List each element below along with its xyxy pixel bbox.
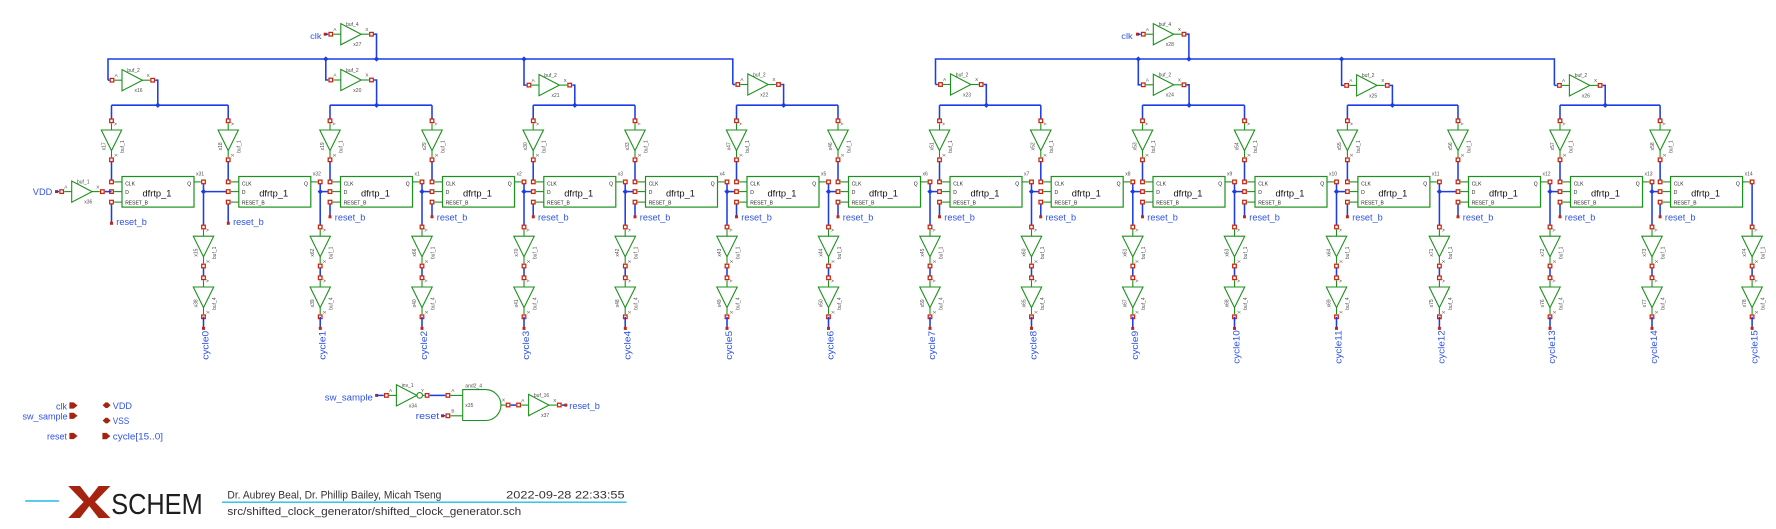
- label reset_b at x8: [1046, 212, 1077, 223]
- wire Q of x7 to D of x8 and down: [1032, 182, 1041, 227]
- svg-text:buf_1: buf_1: [542, 140, 548, 153]
- svg-text:RESET_B: RESET_B: [125, 200, 148, 206]
- junction node q11: [1334, 189, 1339, 194]
- svg-text:buf_1: buf_1: [77, 179, 90, 185]
- wire x24 input drop: [1138, 59, 1140, 85]
- svg-text:CLK: CLK: [1574, 182, 1584, 188]
- label reset_b at x14: [1665, 212, 1696, 223]
- svg-text:CLK: CLK: [1258, 182, 1268, 188]
- buffer buf_1 x55 (clock): [1337, 119, 1362, 162]
- buffer buf_1 x19 (clock): [320, 119, 345, 162]
- junction node q2: [419, 189, 424, 194]
- wire reset_b stub x3: [532, 202, 535, 218]
- junction right net at x28: [1186, 56, 1191, 61]
- svg-text:reset_b: reset_b: [335, 212, 366, 223]
- wire clk buf x18 to CLK of x32: [227, 160, 229, 182]
- svg-text:x74: x74: [1742, 248, 1748, 256]
- wire X x43 to A x49: [726, 266, 728, 278]
- buffer buf_1 x61 (output): [1123, 225, 1148, 268]
- svg-text:buf_1: buf_1: [1448, 246, 1454, 259]
- svg-text:x59: x59: [920, 299, 926, 307]
- wire clk pair net 1: [330, 104, 432, 106]
- label cycle3: [521, 331, 531, 360]
- svg-text:x73: x73: [1642, 248, 1648, 256]
- svg-text:buf_4: buf_4: [346, 22, 359, 28]
- svg-text:X: X: [424, 260, 429, 263]
- svg-text:SCHEM: SCHEM: [111, 489, 203, 521]
- junction left net at x20: [323, 56, 328, 61]
- svg-text:buf_1: buf_1: [1558, 246, 1564, 259]
- wire clk drop to buf x55: [1346, 105, 1348, 121]
- svg-text:x64: x64: [1326, 248, 1332, 256]
- wire cycle0 output: [202, 317, 205, 330]
- wire clk buf x52 to CLK of x8: [1040, 160, 1042, 182]
- svg-text:CLK: CLK: [547, 182, 557, 188]
- label cycle8: [1029, 331, 1039, 360]
- wire clk pair net 3: [737, 104, 839, 106]
- svg-text:Y: Y: [421, 388, 424, 393]
- svg-text:x46: x46: [828, 142, 834, 150]
- svg-text:dfrtp_1: dfrtp_1: [564, 189, 593, 199]
- svg-text:X: X: [1349, 154, 1354, 157]
- svg-text:x10: x10: [1329, 171, 1337, 177]
- svg-text:X: X: [932, 311, 937, 314]
- svg-text:x69: x69: [1326, 299, 1332, 307]
- svg-text:cycle12: cycle12: [1437, 330, 1447, 364]
- svg-text:x52: x52: [1031, 142, 1037, 150]
- wire long clk net left half: [108, 59, 733, 85]
- svg-text:D: D: [1674, 190, 1678, 196]
- svg-text:dfrtp_1: dfrtp_1: [1378, 189, 1407, 199]
- svg-text:buf_1: buf_1: [1141, 246, 1147, 259]
- wire X x61 to A x67: [1132, 266, 1134, 278]
- svg-text:cycle11: cycle11: [1334, 330, 1344, 364]
- svg-text:X: X: [627, 311, 632, 314]
- wire Q of x1 to D of x2 and down: [422, 182, 432, 227]
- svg-text:cycle3: cycle3: [521, 331, 531, 360]
- title date: [506, 490, 624, 502]
- svg-text:reset_b: reset_b: [569, 401, 600, 412]
- svg-text:buf_1: buf_1: [532, 246, 538, 259]
- svg-text:clk: clk: [56, 401, 67, 411]
- svg-text:X: X: [322, 260, 327, 263]
- junction pair net 5: [1186, 103, 1191, 108]
- output pin cycle[15..0]: [102, 432, 163, 442]
- svg-text:x21: x21: [552, 93, 560, 99]
- svg-text:x43: x43: [717, 248, 723, 256]
- flip-flop dfrtp_1 x31: [110, 171, 206, 207]
- label reset_b at x4: [640, 212, 671, 223]
- svg-text:X: X: [932, 260, 937, 263]
- flip-flop dfrtp_1 x10: [1243, 171, 1339, 207]
- svg-text:RESET_B: RESET_B: [242, 200, 265, 206]
- junction left net at x27: [374, 56, 379, 61]
- svg-text:buf_1: buf_1: [338, 140, 344, 153]
- svg-text:x20: x20: [353, 88, 361, 94]
- junction node q0: [201, 189, 206, 194]
- svg-text:x3: x3: [618, 171, 624, 177]
- wire clk buf x28 output down to net: [1187, 34, 1189, 59]
- svg-text:buf_1: buf_1: [1253, 140, 1259, 153]
- svg-text:Q: Q: [609, 182, 613, 188]
- svg-text:buf_1: buf_1: [329, 246, 335, 259]
- svg-text:buf_1: buf_1: [1151, 140, 1157, 153]
- svg-text:x38: x38: [193, 299, 199, 307]
- svg-text:buf_1: buf_1: [745, 140, 751, 153]
- svg-text:buf_1: buf_1: [846, 140, 852, 153]
- label cycle1: [317, 331, 327, 360]
- svg-text:dfrtp_1: dfrtp_1: [361, 189, 390, 199]
- flip-flop dfrtp_1 x11: [1346, 171, 1442, 207]
- svg-text:buf_4: buf_4: [532, 297, 538, 310]
- label cycle15: [1749, 330, 1759, 364]
- svg-text:X: X: [322, 311, 327, 314]
- wire cycle1 output: [319, 317, 322, 330]
- wire x16 output down: [155, 80, 158, 105]
- wire X x63 to A x68: [1234, 266, 1236, 278]
- svg-text:Q: Q: [304, 182, 308, 188]
- wire clk buf x57 to CLK of x13: [1559, 160, 1561, 182]
- svg-text:CLK: CLK: [125, 182, 135, 188]
- svg-text:x5: x5: [821, 171, 827, 177]
- wire clk buf x58 to CLK of x14: [1659, 160, 1661, 182]
- svg-text:x57: x57: [1550, 142, 1556, 150]
- svg-text:reset_b: reset_b: [843, 212, 874, 223]
- svg-text:x50: x50: [818, 299, 824, 307]
- svg-text:X: X: [1135, 311, 1140, 314]
- svg-text:RESET_B: RESET_B: [649, 200, 672, 206]
- svg-text:src/shifted_clock_generator/sh: src/shifted_clock_generator/shifted_cloc…: [227, 506, 521, 518]
- buffer buf_1 x63 (output): [1224, 225, 1249, 268]
- wire reset_b stub x13: [1559, 202, 1562, 218]
- junction node q8: [1029, 189, 1034, 194]
- svg-text:X: X: [1381, 78, 1384, 83]
- wire clk buf x19 to CLK of x1: [329, 160, 331, 182]
- svg-text:D: D: [953, 190, 957, 196]
- wire reset_b stub x11: [1346, 202, 1349, 218]
- junction node q3: [521, 189, 526, 194]
- label reset: [416, 411, 446, 421]
- wire reset_b stub x2: [431, 202, 434, 218]
- svg-text:VSS: VSS: [113, 416, 130, 426]
- svg-text:reset_b: reset_b: [640, 212, 671, 223]
- junction node q5: [724, 189, 729, 194]
- wire clk drop to buf x54: [1244, 105, 1246, 121]
- svg-text:x32: x32: [313, 171, 321, 177]
- buffer buf_1 x43 (output): [717, 225, 742, 268]
- svg-text:buf_2: buf_2: [1575, 73, 1588, 79]
- svg-text:X: X: [975, 77, 978, 82]
- wire x34 Y to and A: [430, 394, 446, 396]
- junction pair net 2: [572, 103, 577, 108]
- svg-text:buf_1: buf_1: [1040, 246, 1046, 259]
- svg-text:2022-09-28 22:33:55: 2022-09-28 22:33:55: [506, 490, 624, 502]
- svg-text:x28: x28: [1166, 42, 1174, 48]
- svg-text:x34: x34: [409, 403, 417, 409]
- svg-text:x1: x1: [415, 171, 421, 177]
- buffer buf_1 x74 (output): [1742, 225, 1767, 268]
- svg-text:buf_4: buf_4: [1448, 297, 1454, 310]
- svg-text:x18: x18: [218, 142, 224, 150]
- buffer buf_1 x60 (output): [1021, 225, 1046, 268]
- input pin reset: [47, 432, 78, 442]
- svg-text:CLK: CLK: [1674, 182, 1684, 188]
- svg-text:buf_1: buf_1: [1345, 246, 1351, 259]
- svg-text:buf_1: buf_1: [1761, 246, 1767, 259]
- svg-text:x27: x27: [353, 42, 361, 48]
- svg-text:sw_sample: sw_sample: [325, 392, 373, 402]
- label VDD at x36: [33, 187, 59, 197]
- label reset_b at x32: [233, 217, 264, 228]
- svg-text:x67: x67: [1123, 299, 1129, 307]
- wire clk drop to buf x51: [939, 105, 941, 121]
- wire X x44 to A x50: [828, 266, 830, 278]
- svg-text:x25: x25: [1369, 93, 1377, 99]
- svg-text:x12: x12: [1543, 171, 1551, 177]
- svg-text:X: X: [434, 154, 439, 157]
- svg-text:buf_1: buf_1: [634, 246, 640, 259]
- svg-text:X: X: [738, 154, 743, 157]
- svg-text:x36: x36: [84, 200, 92, 206]
- buffer buf_1 x42 (output): [615, 225, 640, 268]
- svg-text:buf_2: buf_2: [1362, 73, 1375, 79]
- wire clk buf x17 to CLK of x31: [111, 160, 113, 182]
- svg-text:reset: reset: [416, 411, 440, 421]
- svg-text:X: X: [147, 73, 150, 78]
- svg-text:reset_b: reset_b: [1249, 212, 1280, 223]
- svg-text:x40: x40: [412, 299, 418, 307]
- svg-text:X: X: [1338, 311, 1343, 314]
- svg-text:buf_1: buf_1: [1466, 140, 1472, 153]
- svg-text:X: X: [1178, 27, 1181, 32]
- wire Q of x31 to D of x32 and down: [204, 182, 229, 227]
- wire x25 output down: [1390, 85, 1393, 105]
- wire x23 output down: [984, 85, 987, 106]
- junction node q6: [826, 189, 831, 194]
- svg-text:dfrtp_1: dfrtp_1: [1276, 189, 1305, 199]
- wire reset_b stub x12: [1457, 202, 1460, 218]
- svg-text:buf_4: buf_4: [938, 297, 944, 310]
- svg-text:X: X: [1562, 154, 1567, 157]
- junction node q7: [927, 189, 932, 194]
- svg-text:buf_1: buf_1: [948, 140, 954, 153]
- svg-text:x66: x66: [412, 248, 418, 256]
- buffer buf_2 x23: [939, 72, 983, 98]
- label cycle11: [1334, 330, 1344, 364]
- svg-text:buf_1: buf_1: [430, 246, 436, 259]
- svg-text:buf_4: buf_4: [1243, 297, 1249, 310]
- svg-text:RESET_B: RESET_B: [852, 200, 875, 206]
- buffer buf_1 x54 (clock): [1234, 119, 1259, 162]
- wire clk drop to buf x19: [329, 105, 331, 121]
- label sw_sample: [325, 392, 384, 402]
- svg-text:buf_4: buf_4: [1660, 297, 1666, 310]
- svg-text:X: X: [637, 154, 642, 157]
- wire clk drop to buf x58: [1659, 105, 1661, 121]
- wire reset_b stub x7: [938, 202, 941, 218]
- svg-text:dfrtp_1: dfrtp_1: [971, 189, 1000, 199]
- svg-text:x2: x2: [517, 171, 523, 177]
- wire clk buf x53 to CLK of x9: [1142, 160, 1144, 182]
- wire Q of x10 to D of x11 and down: [1337, 182, 1348, 227]
- flip-flop dfrtp_1 x7: [938, 171, 1034, 207]
- wire Q of x5 to D of x6 and down: [829, 182, 839, 227]
- buffer buf_4 x38 (output): [193, 276, 218, 319]
- svg-text:cycle2: cycle2: [419, 331, 429, 360]
- wire X x62 to A x39: [319, 266, 321, 278]
- buffer buf_1 x44 (output): [818, 225, 843, 268]
- buffer buf_2 x26: [1558, 73, 1602, 99]
- wire cycle9 output: [1131, 317, 1134, 330]
- buffer buf_1 x58 (clock): [1650, 119, 1675, 162]
- svg-text:x41: x41: [514, 299, 520, 307]
- svg-text:buf_2: buf_2: [753, 72, 766, 78]
- svg-text:reset_b: reset_b: [1665, 212, 1696, 223]
- label reset_b at x9: [1147, 212, 1178, 223]
- wire clk buf x54 to CLK of x10: [1244, 160, 1246, 182]
- wire reset_b stub x31: [110, 202, 113, 225]
- wire cycle15 output: [1751, 317, 1754, 330]
- svg-text:x54: x54: [1234, 142, 1240, 150]
- svg-text:buf_1: buf_1: [1568, 140, 1574, 153]
- flip-flop dfrtp_1 x32: [226, 171, 322, 207]
- buffer buf_2 x22: [736, 72, 780, 98]
- wire reset_b output: [562, 404, 567, 407]
- svg-text:VDD: VDD: [113, 401, 133, 411]
- svg-text:buf_1: buf_1: [643, 140, 649, 153]
- wire reset_b stub x5: [735, 202, 738, 218]
- flip-flop dfrtp_1 x6: [836, 171, 932, 207]
- svg-text:RESET_B: RESET_B: [446, 200, 469, 206]
- svg-text:buf_1: buf_1: [735, 246, 741, 259]
- svg-text:reset_b: reset_b: [233, 217, 264, 228]
- svg-text:Q: Q: [187, 182, 191, 188]
- svg-text:x71: x71: [1429, 248, 1435, 256]
- svg-text:x39: x39: [310, 299, 316, 307]
- wire x36 X to D of x31: [105, 191, 112, 193]
- svg-text:buf_1: buf_1: [1049, 140, 1055, 153]
- wire X x74 to A x78: [1751, 266, 1753, 278]
- svg-text:X: X: [332, 154, 337, 157]
- svg-text:dfrtp_1: dfrtp_1: [143, 189, 172, 199]
- svg-text:CLK: CLK: [242, 182, 252, 188]
- logo cyan dash: [25, 500, 59, 502]
- wire cycle5 output: [726, 317, 729, 330]
- buffer buf_2 x16: [110, 68, 154, 94]
- svg-text:cycle7: cycle7: [927, 331, 937, 360]
- wire x24 output down: [1187, 85, 1190, 105]
- wire Q of x4 to D of x5 and down: [727, 182, 737, 227]
- wire clk drop to buf x47: [736, 105, 738, 121]
- svg-text:reset_b: reset_b: [1352, 212, 1383, 223]
- svg-text:x35: x35: [465, 403, 473, 409]
- svg-text:X: X: [1033, 311, 1038, 314]
- svg-text:X: X: [1033, 260, 1038, 263]
- svg-text:X: X: [1552, 311, 1557, 314]
- svg-text:D: D: [125, 190, 129, 196]
- wire X x42 to A x48: [624, 266, 626, 278]
- svg-text:CLK: CLK: [446, 182, 456, 188]
- wire X x66 to A x40: [421, 266, 423, 278]
- wire x16 input stub: [108, 79, 109, 81]
- junction right net at x24: [1136, 56, 1141, 61]
- svg-text:D: D: [547, 190, 551, 196]
- svg-text:RESET_B: RESET_B: [1574, 200, 1597, 206]
- label reset_b at x1: [335, 212, 366, 223]
- svg-text:D: D: [1055, 190, 1059, 196]
- label reset_b at x12: [1463, 212, 1494, 223]
- wire X x73 to A x77: [1651, 266, 1653, 278]
- svg-text:X: X: [840, 154, 845, 157]
- svg-text:buf_4: buf_4: [1345, 297, 1351, 310]
- wire Q of x3 to D of x4 and down: [625, 182, 635, 227]
- wire X x45 to A x59: [929, 266, 931, 278]
- wire clk drop to buf x18: [227, 105, 229, 121]
- wire X x15 to A x38: [203, 266, 205, 278]
- svg-text:X: X: [729, 311, 734, 314]
- svg-text:x16: x16: [135, 88, 143, 94]
- svg-text:x44: x44: [818, 248, 824, 256]
- svg-text:RESET_B: RESET_B: [1472, 200, 1495, 206]
- svg-text:reset_b: reset_b: [538, 212, 569, 223]
- junction node q9: [1130, 189, 1135, 194]
- svg-text:x68: x68: [1224, 299, 1230, 307]
- wire Q of x12 to D of x13 and down: [1550, 182, 1560, 227]
- logo SCHEM text: [111, 489, 203, 521]
- wire Q of x13 to D of x14 and down: [1652, 182, 1660, 227]
- buffer buf_4 x41 (output): [514, 276, 539, 319]
- svg-text:X: X: [424, 311, 429, 314]
- svg-text:buf_4: buf_4: [735, 297, 741, 310]
- junction pair net 3: [781, 103, 786, 108]
- wire x20 input drop: [326, 59, 328, 80]
- label cycle9: [1130, 331, 1140, 360]
- wire reset_b stub x14: [1659, 202, 1662, 218]
- svg-text:reset_b: reset_b: [944, 212, 975, 223]
- svg-text:CLK: CLK: [1055, 182, 1065, 188]
- wire cycle13 output: [1549, 317, 1552, 330]
- svg-text:x53: x53: [1132, 142, 1138, 150]
- svg-text:buf_1: buf_1: [938, 246, 944, 259]
- svg-text:cycle0: cycle0: [201, 331, 211, 360]
- wire cycle4 output: [624, 317, 627, 330]
- buffer buf_2 x20: [329, 68, 373, 94]
- label reset_b at x13: [1565, 212, 1596, 223]
- svg-text:cycle1: cycle1: [317, 331, 327, 360]
- wire Q of x8 to D of x9 and down: [1133, 182, 1143, 227]
- svg-text:dfrtp_1: dfrtp_1: [463, 189, 492, 199]
- svg-text:D: D: [1258, 190, 1262, 196]
- inverter inv_1 x34: [385, 383, 429, 409]
- wire and X to buf_16 A: [511, 404, 516, 406]
- buffer buf_1 x45 (output): [920, 225, 945, 268]
- label reset_b at x5: [741, 212, 772, 223]
- flip-flop dfrtp_1 x12: [1456, 171, 1552, 207]
- inout pin VDD: [103, 401, 133, 411]
- svg-text:X: X: [1135, 260, 1140, 263]
- svg-text:x6: x6: [923, 171, 929, 177]
- svg-text:cycle4: cycle4: [623, 331, 633, 360]
- title path: [227, 506, 521, 518]
- buffer buf_1 x33 (clock): [625, 119, 650, 162]
- svg-text:Q: Q: [1320, 182, 1324, 188]
- svg-text:buf_2: buf_2: [544, 73, 557, 79]
- svg-text:x22: x22: [760, 92, 768, 98]
- wire x26 input stub: [1554, 84, 1556, 86]
- svg-text:X: X: [526, 311, 531, 314]
- svg-text:x8: x8: [1125, 171, 1131, 177]
- svg-text:x72: x72: [1540, 248, 1546, 256]
